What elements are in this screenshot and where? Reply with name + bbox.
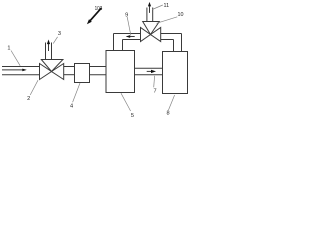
leader line 3 — [53, 37, 57, 44]
reference arrow 103 shaft — [90, 8, 101, 21]
valve V10 right triangle — [151, 28, 161, 42]
svg-text:3: 3 — [58, 31, 61, 37]
leader line 11 — [152, 5, 163, 10]
svg-text:2: 2 — [27, 96, 30, 102]
vent arrow 11 shaft — [149, 6, 151, 13]
leader line 8 — [169, 95, 175, 110]
vent arrow 11 head — [148, 2, 151, 7]
flow arrow 1 head — [22, 69, 27, 72]
leader line 2 — [30, 80, 38, 95]
flow arrow 9 shaft — [130, 36, 135, 38]
pipe valve10 to box8 bottom line — [161, 39, 174, 41]
flow arrow 7 shaft — [147, 70, 152, 72]
svg-text:10: 10 — [178, 12, 184, 18]
pipe box4 to box5 bottom line — [90, 74, 107, 76]
valve V2 top triangle — [41, 60, 63, 72]
vent arrow 3 shaft — [48, 44, 50, 51]
return pipe 9 top line — [114, 33, 141, 35]
leader line 4 — [73, 83, 80, 102]
box 8 — [163, 52, 188, 94]
vent pipe 3 right line — [51, 43, 53, 60]
box 4 — [75, 64, 90, 83]
leader line 7 — [153, 76, 156, 88]
return pipe 9 bottom line — [123, 39, 141, 41]
valve V10 top triangle — [143, 22, 160, 35]
pipe valve to box4 top line — [64, 66, 75, 68]
pipe 7 bottom line — [135, 74, 163, 76]
vent pipe 11 left line — [146, 8, 148, 22]
leader line 10 — [157, 17, 178, 24]
svg-text:1: 1 — [7, 46, 10, 52]
svg-text:4: 4 — [70, 104, 73, 110]
svg-text:11: 11 — [164, 3, 170, 9]
return pipe 9 outer vertical — [113, 34, 115, 51]
leader line 5 — [121, 93, 131, 111]
leader line 1 — [11, 51, 20, 66]
pipe valve to box4 bottom line — [64, 74, 75, 76]
svg-text:7: 7 — [154, 89, 157, 95]
svg-text:8: 8 — [167, 111, 170, 117]
flow arrow 1 shaft — [2, 69, 23, 71]
vent arrow 3 head — [47, 40, 50, 45]
return pipe 9 inner vertical — [122, 40, 124, 51]
flow arrow 9 head — [126, 35, 131, 38]
pipe inlet bottom line — [2, 74, 40, 76]
valve V2 left triangle — [40, 64, 52, 80]
pipe box4 to box5 top line — [90, 66, 107, 68]
valve V2 right triangle — [52, 64, 64, 80]
svg-text:103: 103 — [95, 6, 103, 12]
vent pipe 3 left line — [45, 43, 47, 60]
pipe 7 top line — [135, 67, 163, 69]
vent pipe 11 right line — [152, 8, 154, 22]
reference arrow 103 head — [87, 19, 92, 24]
pipe valve10 to box8 outer vertical — [181, 34, 183, 52]
valve V10 left triangle — [141, 28, 151, 42]
pipe inlet top line — [2, 66, 40, 68]
pipe valve10 to box8 top line — [161, 33, 182, 35]
box 5 — [106, 51, 135, 93]
pipe valve10 to box8 inner vertical — [173, 40, 175, 52]
flow arrow 7 head — [151, 70, 156, 73]
svg-text:9: 9 — [125, 12, 128, 18]
leader line 9 — [127, 17, 131, 35]
svg-text:5: 5 — [131, 113, 134, 119]
